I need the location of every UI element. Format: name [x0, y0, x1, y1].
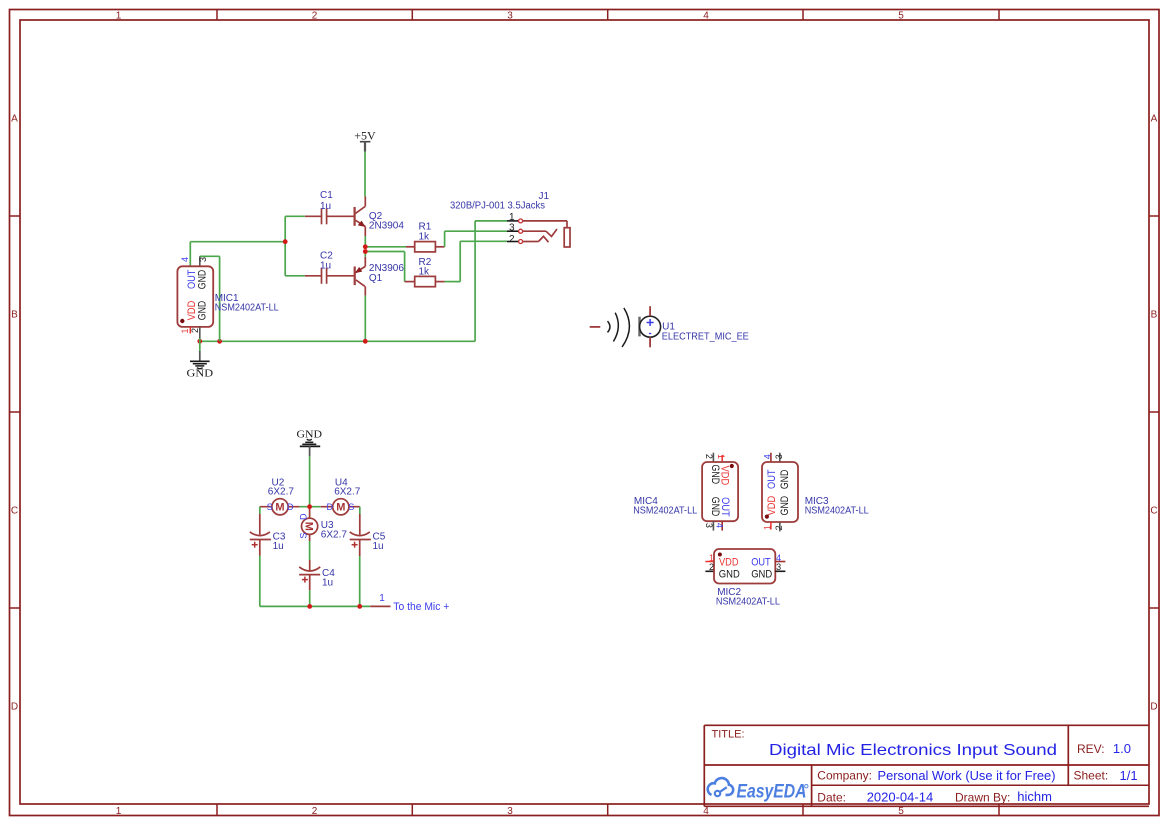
svg-text:C1: C1 [320, 190, 333, 201]
svg-text:5: 5 [898, 10, 904, 21]
svg-text:D: D [327, 502, 334, 512]
svg-text:2N3904: 2N3904 [369, 221, 404, 232]
svg-text:GND: GND [297, 429, 323, 440]
svg-text:1: 1 [379, 593, 385, 604]
svg-text:C: C [1150, 506, 1157, 517]
svg-text:3: 3 [776, 562, 781, 572]
svg-text:2: 2 [312, 10, 318, 21]
svg-text:A: A [1151, 114, 1158, 125]
svg-text:NSM2402AT-LL: NSM2402AT-LL [633, 505, 697, 516]
svg-text:3: 3 [198, 257, 208, 262]
svg-text:320B/PJ-001 3.5Jacks: 320B/PJ-001 3.5Jacks [450, 201, 545, 212]
svg-text:To the Mic +: To the Mic + [393, 601, 449, 613]
svg-text:1k: 1k [419, 267, 431, 278]
svg-text:D: D [298, 513, 308, 520]
svg-text:U1: U1 [662, 321, 675, 332]
svg-text:TITLE:: TITLE: [712, 729, 745, 741]
svg-text:Date:: Date: [817, 791, 846, 805]
svg-text:4: 4 [180, 257, 190, 262]
svg-text:6X2.7: 6X2.7 [334, 487, 361, 498]
svg-text:GND: GND [196, 301, 208, 321]
svg-text:Personal Work (Use it for Free: Personal Work (Use it for Free) [878, 768, 1056, 783]
svg-text:1: 1 [180, 328, 190, 333]
svg-text:EasyEDA: EasyEDA [737, 782, 807, 803]
svg-text:NSM2402AT-LL: NSM2402AT-LL [716, 596, 780, 607]
svg-text:1: 1 [116, 806, 122, 817]
svg-text:1u: 1u [373, 541, 384, 552]
svg-text:M: M [275, 502, 284, 514]
svg-text:D: D [1150, 702, 1157, 713]
svg-text:4: 4 [703, 806, 709, 817]
svg-text:5: 5 [898, 806, 904, 817]
svg-text:3: 3 [507, 10, 513, 21]
svg-text:1u: 1u [320, 261, 331, 272]
svg-text:hichm: hichm [1017, 789, 1052, 804]
svg-text:1.0: 1.0 [1113, 741, 1131, 756]
svg-text:2: 2 [704, 454, 714, 459]
svg-text:6X2.7: 6X2.7 [268, 487, 295, 498]
svg-text:S: S [298, 533, 308, 539]
svg-text:1u: 1u [320, 201, 331, 212]
svg-text:2: 2 [774, 525, 784, 530]
svg-text:REV:: REV: [1077, 742, 1105, 756]
svg-text:Q1: Q1 [369, 273, 383, 284]
svg-text:OUT: OUT [719, 497, 731, 517]
svg-text:NSM2402AT-LL: NSM2402AT-LL [805, 505, 869, 516]
svg-text:GND: GND [196, 270, 208, 290]
svg-text:2: 2 [509, 234, 515, 245]
svg-text:M: M [336, 502, 345, 514]
svg-text:1k: 1k [419, 232, 431, 243]
svg-text:+5V: +5V [354, 128, 376, 142]
svg-text:2: 2 [190, 328, 200, 333]
svg-text:OUT: OUT [751, 557, 771, 569]
svg-text:Digital Mic Electronics Input: Digital Mic Electronics Input Sound [769, 742, 1057, 759]
svg-text:GND: GND [779, 496, 791, 516]
svg-text:1: 1 [762, 525, 772, 530]
svg-text:GND: GND [719, 569, 740, 581]
svg-text:C: C [11, 506, 18, 517]
svg-text:1: 1 [716, 454, 726, 459]
svg-text:Company:: Company: [817, 769, 872, 783]
svg-text:A: A [11, 114, 18, 125]
svg-text:4: 4 [715, 523, 725, 528]
svg-text:S: S [348, 502, 354, 512]
svg-text:OUT: OUT [766, 469, 778, 489]
svg-text:4: 4 [762, 454, 772, 459]
svg-text:VDD: VDD [719, 557, 739, 569]
svg-text:GND: GND [751, 569, 772, 581]
svg-text:D: D [287, 502, 294, 512]
svg-text:1u: 1u [273, 541, 284, 552]
svg-text:1u: 1u [322, 577, 333, 588]
svg-text:2: 2 [312, 806, 318, 817]
svg-text:3: 3 [507, 806, 513, 817]
svg-text:D: D [11, 702, 18, 713]
svg-text:NSM2402AT-LL: NSM2402AT-LL [215, 302, 279, 313]
svg-text:2020-04-14: 2020-04-14 [867, 790, 934, 805]
svg-text:4: 4 [703, 10, 709, 21]
svg-text:VDD: VDD [766, 496, 778, 516]
svg-text:3: 3 [774, 454, 784, 459]
svg-text:ELECTRET_MIC_EE: ELECTRET_MIC_EE [662, 332, 749, 343]
svg-text:GND: GND [187, 369, 214, 380]
svg-text:Drawn By:: Drawn By: [955, 791, 1010, 805]
svg-text:1/1: 1/1 [1120, 768, 1138, 783]
svg-text:VDD: VDD [719, 466, 731, 486]
svg-text:B: B [11, 310, 18, 321]
svg-text:1: 1 [116, 10, 122, 21]
svg-text:B: B [1151, 310, 1158, 321]
svg-text:M: M [303, 522, 315, 531]
svg-text:Sheet:: Sheet: [1074, 769, 1109, 783]
svg-text:3: 3 [704, 523, 714, 528]
svg-text:1: 1 [509, 212, 515, 223]
svg-text:2: 2 [709, 562, 714, 572]
svg-text:GND: GND [779, 470, 791, 490]
svg-text:3: 3 [509, 223, 515, 234]
svg-text:S: S [267, 502, 273, 512]
svg-text:6X2.7: 6X2.7 [321, 530, 348, 541]
